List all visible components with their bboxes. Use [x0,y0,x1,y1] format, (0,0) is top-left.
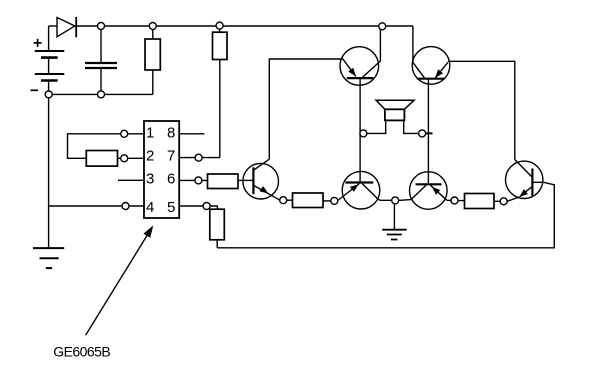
node top-R2 [216,22,223,29]
node pin5 [203,203,210,210]
wire rail corner down to Q2 [412,26,414,62]
svg-text:1: 1 [146,124,154,141]
wire Q5 collector to node [447,199,451,201]
battery minus label [31,89,39,91]
node speaker-right [419,130,426,137]
node Q6-emitter [500,198,507,205]
wire pin4 to left rail [49,205,144,207]
node pin7 [195,154,202,161]
transistor Q1 [340,47,380,86]
wire Q5 emitter to mid node [399,199,412,202]
wire Q4 collector to mid node [378,199,392,200]
node Q5-collector [451,197,458,204]
svg-text:4: 4 [146,199,154,216]
transistor Q5 [410,172,448,210]
wire pin5 to R5 [179,206,217,209]
resistor R7 [458,200,465,202]
svg-text:6: 6 [167,170,175,187]
battery B1 [35,26,65,94]
node pin1 [121,130,128,137]
svg-text:2: 2 [146,147,154,164]
wire Q1 base down to speaker node [359,78,361,182]
wire Q6 emitter to node [507,197,519,201]
wire pin3 stub [118,179,144,181]
resistor R3 [86,151,117,167]
resistor R6 [286,199,292,201]
wire ground rail under battery [49,93,153,95]
node speaker-left [360,130,367,137]
wire pin7 to R2 [179,157,220,159]
node pin6 [195,177,202,184]
wire bottom rail [217,182,554,248]
node top-cap [98,23,105,30]
diode D1 [57,17,76,37]
annotation arrow to U1 [86,232,150,336]
svg-text:3: 3 [146,170,154,187]
wire R3 to pin2 [118,157,145,159]
wire R5 to bottom rail [216,240,218,248]
node pin2 [121,155,128,162]
wire pin1 feedback loop [68,134,145,159]
wire Q3 collector to Q1 [269,59,343,159]
resistor R5 [210,209,225,240]
wire Q2 collector to right drop [448,61,515,159]
wire Q1 collector up to rail node [379,26,381,61]
transistor Q4 [338,171,380,209]
battery plus label [34,39,42,47]
resistor R2 [213,26,228,158]
svg-text:7: 7 [167,147,175,164]
op-amp IC U1 GE6065B [144,121,179,218]
transistor Q2 [412,47,450,85]
node cap-bottom [98,91,105,98]
wire R4 to Q3 base [238,179,253,181]
node Q4-emitter [331,197,338,204]
resistor R4 [208,174,239,189]
resistor R1 [145,26,160,94]
node Q3-emitter [280,197,287,204]
wire left drop to ground [48,94,50,248]
ground GND1 [33,248,64,268]
wire top rail [49,25,57,27]
wire pin8 stub [179,133,204,135]
transistor Q6 [506,160,544,199]
capacitor C1 [85,26,117,94]
svg-text:GE6065B: GE6065B [53,344,110,360]
svg-text:8: 8 [167,124,175,141]
ground GND2 [382,230,406,240]
speaker LS1 [367,100,433,133]
node mid-ground [392,197,399,204]
node bat-minus [45,91,52,98]
wire pin6 to R4 [179,179,207,181]
transistor Q3 [243,159,280,200]
svg-text:5: 5 [167,199,175,216]
wire mid node to ground [393,204,395,230]
node top-R1 [149,23,156,30]
node top-Q1 [379,23,386,30]
wire Q2 base down to speaker node [427,79,429,185]
node pin4 [122,203,129,210]
